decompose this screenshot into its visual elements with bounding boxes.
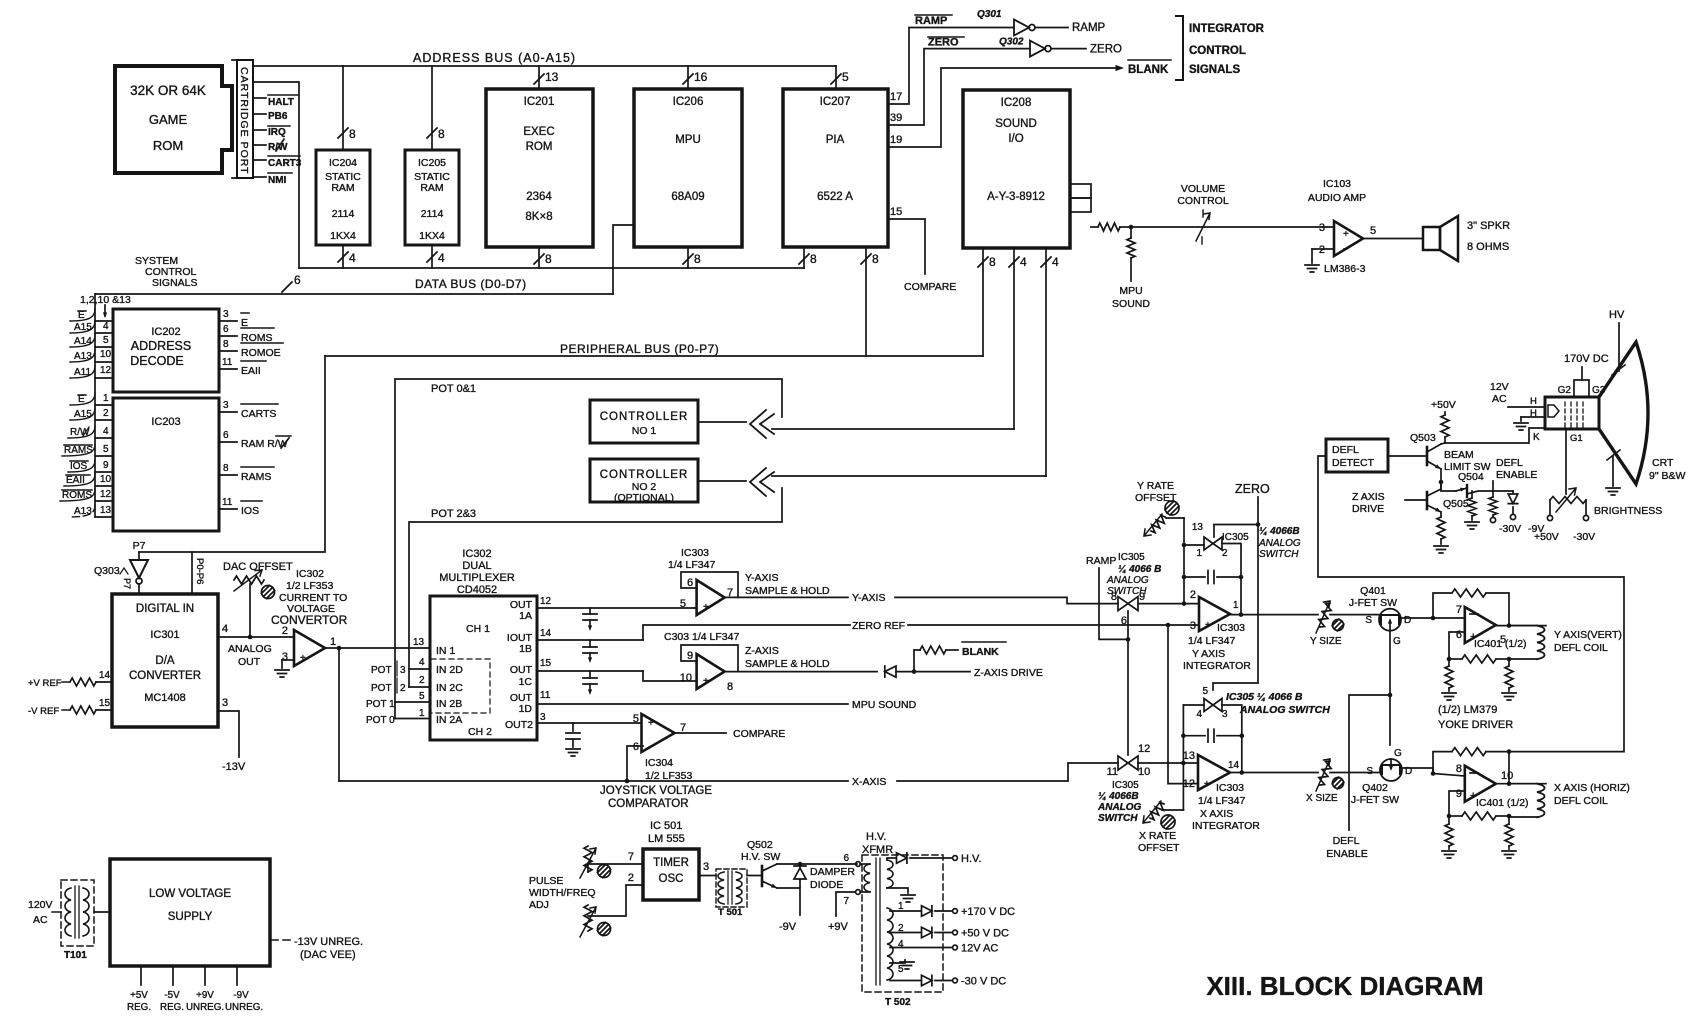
integrator control signals bracket — [1176, 16, 1265, 80]
wire comparator pin6 from X axis — [627, 746, 643, 781]
svg-text:PB6: PB6 — [268, 111, 288, 122]
svg-text:R/W: R/W — [70, 427, 90, 438]
IC203 pin 11 IOS out — [219, 497, 262, 517]
svg-text:5: 5 — [842, 70, 849, 84]
svg-text:2: 2 — [419, 675, 425, 686]
IC302 dual multiplexer CD4052 — [430, 548, 537, 740]
svg-text:Z-AXIS: Z-AXIS — [745, 645, 779, 657]
wire DAC out to multiplexer IN1 — [325, 637, 430, 648]
svg-text:ROM: ROM — [153, 138, 183, 153]
svg-text:13: 13 — [1192, 522, 1204, 533]
svg-text:IC305 ¼ 4066 B: IC305 ¼ 4066 B — [1226, 691, 1303, 703]
wire Y integrator output — [1230, 614, 1318, 616]
svg-text:1A: 1A — [519, 610, 532, 622]
wire pot3 tap — [371, 657, 430, 676]
wire defl detect loop — [1318, 456, 1624, 752]
svg-text:I/O: I/O — [1008, 133, 1023, 145]
svg-text:4: 4 — [1020, 255, 1027, 269]
svg-text:4: 4 — [1052, 255, 1059, 269]
svg-text:-5V: -5V — [164, 990, 180, 1001]
svg-text:DECODE: DECODE — [130, 354, 183, 368]
svg-text:BRIGHTNESS: BRIGHTNESS — [1594, 505, 1662, 517]
svg-text:+: + — [1343, 229, 1349, 240]
svg-text:2114: 2114 — [421, 208, 444, 220]
svg-text:+V REF: +V REF — [28, 678, 62, 689]
transformer T501 — [716, 869, 747, 918]
svg-text:3: 3 — [223, 309, 229, 320]
svg-text:(1/2) LM379: (1/2) LM379 — [1438, 704, 1497, 716]
svg-text:AUDIO AMP: AUDIO AMP — [1308, 192, 1366, 204]
IC203 pin A15 2 — [70, 408, 113, 420]
svg-text:4: 4 — [1196, 709, 1202, 720]
junction Y output — [1239, 612, 1244, 617]
wire -5V reg pin — [160, 966, 184, 1013]
wire X reset leads — [1183, 705, 1241, 773]
diode +50V — [890, 927, 1009, 939]
svg-text:-30V: -30V — [1499, 523, 1521, 535]
svg-text:8: 8 — [438, 127, 445, 141]
wire address bus to IC205 pin with slash 8 — [427, 66, 445, 150]
wire controller 1 to chevron — [698, 421, 746, 423]
svg-text:X-AXIS: X-AXIS — [852, 776, 886, 788]
svg-text:2: 2 — [1319, 244, 1325, 256]
wire X output node — [1496, 783, 1546, 785]
svg-text:IC208: IC208 — [1001, 97, 1032, 109]
IC202 pin 11 EAII out — [219, 357, 266, 377]
T502 LV secondary — [887, 901, 904, 980]
svg-text:Q503: Q503 — [1410, 432, 1436, 444]
wire controller 2 cable to IC208 — [772, 475, 1046, 477]
svg-text:+: + — [1204, 779, 1210, 790]
svg-text:HV: HV — [1609, 309, 1625, 321]
resistor Y lower feedback — [1449, 655, 1509, 663]
svg-text:12: 12 — [100, 489, 112, 500]
wire out1C to Z sample hold — [643, 671, 696, 681]
svg-text:10: 10 — [1501, 770, 1513, 782]
svg-text:IN 2C: IN 2C — [436, 682, 463, 694]
svg-text:14: 14 — [540, 628, 552, 639]
svg-text:G1: G1 — [1570, 433, 1583, 444]
wire IC204 to data bus with slash 4 — [338, 245, 356, 268]
svg-text:OFFSET: OFFSET — [1135, 492, 1177, 504]
svg-text:A13: A13 — [74, 351, 92, 362]
wire PIA pin 19 BLANK — [888, 60, 1171, 147]
svg-text:G3: G3 — [1592, 385, 1606, 396]
svg-text:SWITCH: SWITCH — [1259, 549, 1299, 560]
svg-text:IN 2A: IN 2A — [436, 714, 462, 726]
IC203 pin RAMS 5 — [62, 444, 113, 456]
svg-text:+: + — [703, 676, 709, 687]
transistor Q302 inverter — [999, 37, 1122, 57]
wire +9V to T502 pin7 — [828, 892, 855, 933]
svg-text:14: 14 — [1228, 760, 1240, 771]
svg-text:IC302: IC302 — [296, 568, 324, 580]
svg-text:A15: A15 — [74, 322, 92, 333]
svg-text:DUAL: DUAL — [462, 560, 491, 572]
svg-text:SOUND: SOUND — [1112, 298, 1150, 310]
svg-text:13: 13 — [1183, 750, 1195, 762]
svg-text:IC303: IC303 — [1216, 782, 1244, 794]
svg-text:POT: POT — [371, 665, 392, 676]
svg-text:-13V: -13V — [222, 761, 246, 773]
resistor Y pin6 to ground — [1442, 659, 1456, 700]
svg-text:Q401: Q401 — [1360, 585, 1386, 597]
wire Y size to Q401 — [1330, 614, 1379, 616]
junction X output — [1240, 770, 1245, 775]
svg-text:DAMPER: DAMPER — [810, 866, 855, 878]
svg-text:ROMS: ROMS — [241, 332, 273, 344]
CRT funnel ground — [1606, 450, 1620, 495]
svg-text:JOYSTICK VOLTAGE: JOYSTICK VOLTAGE — [600, 785, 712, 797]
svg-text:IC301: IC301 — [150, 629, 179, 641]
op-amp IC303 X axis integrator — [1183, 750, 1261, 832]
svg-text:Q302: Q302 — [999, 37, 1024, 48]
IC203 pin 3 CARTS out — [219, 400, 278, 420]
wire IC401y pin6 — [1449, 632, 1465, 659]
svg-text:UNREG.: UNREG. — [225, 1002, 263, 1013]
svg-text:E: E — [78, 310, 85, 321]
svg-text:3: 3 — [1222, 709, 1228, 720]
svg-text:-13V UNREG.: -13V UNREG. — [294, 936, 363, 948]
cable chevron controller 2 — [750, 468, 774, 496]
svg-text:-30 V DC: -30 V DC — [961, 976, 1006, 988]
svg-text:MPU SOUND: MPU SOUND — [852, 699, 917, 711]
svg-text:+: + — [703, 602, 709, 613]
svg-text:RAMP: RAMP — [915, 15, 947, 27]
svg-text:CARTRIDGE PORT: CARTRIDGE PORT — [238, 67, 250, 175]
svg-text:SWITCH: SWITCH — [1098, 813, 1138, 824]
svg-text:TIMER: TIMER — [653, 857, 689, 869]
svg-text:1: 1 — [330, 636, 336, 648]
mux pin 15 out1C — [537, 658, 643, 671]
svg-text:8: 8 — [727, 681, 733, 693]
svg-text:11: 11 — [222, 357, 233, 368]
junction IC401y pin7 node — [1431, 616, 1436, 621]
svg-text:1: 1 — [419, 708, 425, 719]
svg-text:13: 13 — [413, 637, 425, 648]
junction X fb node — [1507, 749, 1512, 754]
svg-text:WIDTH/FREQ: WIDTH/FREQ — [529, 887, 596, 899]
svg-text:S: S — [1366, 766, 1373, 777]
svg-text:UNREG.: UNREG. — [186, 1002, 224, 1013]
svg-text:Y AXIS: Y AXIS — [1192, 648, 1225, 660]
trimmer X rate offset — [1138, 801, 1183, 854]
mux pin 3 out2 — [537, 712, 641, 723]
svg-text:SUPPLY: SUPPLY — [168, 911, 213, 923]
wire P0-P6 into DAC — [192, 552, 205, 594]
wire DAC analog out pin 4 — [218, 623, 294, 668]
svg-text:8 OHMS: 8 OHMS — [1467, 241, 1509, 253]
wire Z axis drive — [724, 671, 877, 673]
DEFL DETECT box — [1326, 439, 1388, 472]
wire address bus to IC207 pin with slash 5 — [831, 66, 849, 89]
svg-text:ANALOG: ANALOG — [1097, 802, 1142, 813]
svg-text:POT 0&1: POT 0&1 — [431, 383, 476, 395]
wire IC208 to peripheral bus with slash 8 — [978, 248, 996, 356]
analog switch IC305 X sample — [1097, 743, 1150, 824]
svg-text:PIA: PIA — [826, 134, 845, 146]
inductor Y deflection coil — [1509, 626, 1622, 660]
op-amp IC303 Y axis sample and hold — [668, 547, 830, 615]
svg-text:CARTS: CARTS — [241, 408, 276, 420]
svg-text:RAM: RAM — [331, 182, 354, 194]
svg-text:ADJ: ADJ — [529, 899, 549, 911]
junction X input node — [1181, 761, 1186, 766]
svg-text:8: 8 — [545, 252, 552, 266]
CRT funnel — [1599, 342, 1648, 484]
T502 HV secondary — [887, 858, 915, 902]
svg-text:8: 8 — [872, 252, 879, 266]
svg-text:13: 13 — [545, 70, 559, 84]
svg-text:REG.: REG. — [127, 1002, 151, 1013]
wire Q503 collector to cathode — [1445, 428, 1545, 443]
capacitor out1A — [583, 608, 597, 631]
transistor Q502 HV switch — [741, 839, 780, 888]
svg-text:SOUND: SOUND — [995, 118, 1037, 130]
junction zero ref Y — [1166, 623, 1171, 628]
svg-text:CONTROLLER: CONTROLLER — [600, 469, 689, 481]
wire IC401y input — [1433, 617, 1465, 619]
wire -9V unreg pin — [225, 966, 263, 1013]
wire pot0 tap — [366, 708, 430, 726]
wire IC301 pin 3 to -13V — [218, 697, 246, 773]
wire NMI stub — [253, 173, 292, 186]
IC203 pin R/W 4 — [68, 426, 113, 438]
wire 12VAC out — [890, 943, 998, 955]
IC207 PIA 6522A — [783, 89, 888, 247]
wire address bus to IC201 pin with slash 13 — [534, 66, 559, 89]
potentiometer brightness — [1534, 488, 1662, 543]
cable chevron controller 1 — [750, 410, 774, 438]
svg-text:ADDRESS BUS (A0-A15): ADDRESS BUS (A0-A15) — [413, 51, 576, 65]
svg-text:6: 6 — [687, 577, 693, 589]
svg-text:DEFL COIL: DEFL COIL — [1554, 642, 1608, 654]
wire Q503 emitter junction — [1440, 469, 1442, 482]
wire X integrator output — [1230, 772, 1318, 774]
svg-text:+: + — [648, 718, 654, 729]
wire IC207 to data bus with slash 8 — [799, 247, 817, 268]
svg-text:Z AXIS: Z AXIS — [1352, 491, 1385, 503]
wire R/W stub — [253, 139, 288, 153]
svg-text:IC304: IC304 — [645, 757, 673, 769]
svg-text:IC401 (1/2): IC401 (1/2) — [1474, 638, 1527, 650]
svg-text:J-FET SW: J-FET SW — [1349, 597, 1397, 609]
diode to -9V — [1508, 491, 1544, 535]
svg-text:ANALOG: ANALOG — [1258, 538, 1301, 549]
svg-text:J-FET SW: J-FET SW — [1351, 794, 1399, 806]
game ROM cartridge — [115, 66, 232, 173]
wire trimmer1 to pin7 — [588, 851, 643, 864]
svg-text:4: 4 — [419, 657, 425, 668]
svg-text:E: E — [241, 317, 248, 329]
svg-text:8: 8 — [349, 127, 356, 141]
wire heater H2 — [1514, 408, 1545, 430]
resistor MPU sound mix — [1112, 227, 1150, 310]
svg-text:6: 6 — [1456, 629, 1462, 641]
svg-text:3: 3 — [1190, 620, 1196, 632]
svg-text:+170 V DC: +170 V DC — [961, 906, 1015, 918]
IC203 pin E 1 — [70, 393, 113, 405]
svg-text:5: 5 — [1202, 686, 1208, 697]
svg-text:2: 2 — [282, 625, 288, 637]
svg-text:RAMS: RAMS — [241, 471, 271, 483]
svg-text:19: 19 — [890, 134, 902, 146]
svg-text:OSC: OSC — [659, 873, 684, 885]
op-amp IC103 audio amp LM386 — [1305, 178, 1376, 275]
IC203 pin ROMS 12 — [60, 489, 113, 501]
wire X size to Q402 — [1330, 772, 1380, 774]
junction audio node — [1129, 225, 1134, 230]
svg-text:POT 2&3: POT 2&3 — [431, 508, 476, 520]
IC203 pin 8 RAMS out — [219, 463, 274, 483]
op-amp IC303 Y axis integrator — [1183, 589, 1251, 672]
junction IC401x pin8 node — [1431, 771, 1436, 776]
svg-text:ANALOG: ANALOG — [228, 643, 272, 655]
svg-text:2364: 2364 — [526, 191, 552, 203]
wire address bus to IC206 pin with slash 16 — [683, 66, 708, 89]
IC202 pin A13 — [70, 349, 113, 362]
label pulse width adj — [529, 875, 596, 911]
svg-text:IC201: IC201 — [524, 96, 555, 108]
svg-text:12: 12 — [540, 596, 552, 607]
wire T101 to supply — [94, 911, 110, 913]
junction X feedback tap — [337, 646, 342, 651]
svg-text:RAMS: RAMS — [64, 445, 93, 456]
svg-text:8: 8 — [810, 252, 817, 266]
IC203 pin EAII 10 — [64, 474, 113, 486]
svg-text:IC305: IC305 — [1222, 532, 1249, 543]
svg-text:1KX4: 1KX4 — [419, 230, 445, 242]
svg-text:2: 2 — [400, 683, 406, 694]
wire X-axis — [339, 763, 1118, 788]
resistor Q504 to ground — [1465, 491, 1479, 529]
wire pot1 tap — [366, 691, 430, 710]
svg-text:9: 9 — [1139, 591, 1145, 603]
wire address bus A0-A15 — [253, 51, 836, 66]
svg-text:4: 4 — [103, 321, 109, 332]
wire zero ref — [643, 620, 1168, 640]
wire defl enable — [1326, 695, 1390, 860]
wire IC206 to data bus with slash 8 — [683, 247, 701, 268]
svg-text:8: 8 — [989, 255, 996, 269]
svg-text:E: E — [78, 394, 85, 405]
svg-text:H.V.: H.V. — [866, 831, 886, 843]
wire Y output node — [1496, 625, 1546, 627]
svg-text:IC103: IC103 — [1323, 178, 1351, 190]
svg-text:3" SPKR: 3" SPKR — [1467, 220, 1510, 232]
svg-text:6: 6 — [294, 273, 301, 287]
wire IC208 pot input A with slash 4 — [1009, 248, 1027, 429]
wire RAMP control — [1099, 568, 1128, 639]
op-amp IC401 half X — [1456, 763, 1529, 809]
wire zero ref to pin3 — [1168, 624, 1199, 626]
junction Y lower fb — [1447, 657, 1512, 662]
svg-text:AC: AC — [33, 914, 48, 926]
resistor X pin9 to ground — [1442, 816, 1456, 858]
svg-text:-V REF: -V REF — [28, 706, 59, 717]
svg-text:15: 15 — [540, 658, 552, 669]
analog switch IC305 Y reset — [1192, 522, 1249, 559]
svg-text:LM386-3: LM386-3 — [1324, 263, 1366, 275]
svg-text:5: 5 — [633, 713, 639, 725]
resistor X out to ground — [1502, 816, 1516, 858]
IC205 static RAM — [405, 150, 459, 245]
svg-text:Y SIZE: Y SIZE — [1310, 636, 1342, 647]
svg-text:RAM: RAM — [420, 182, 443, 194]
wire PB6 stub — [253, 111, 288, 122]
svg-text:−: − — [1343, 244, 1349, 255]
trimmer Y rate offset — [1135, 480, 1184, 536]
IC203 pin IOS 9 — [68, 460, 113, 472]
svg-text:NO 1: NO 1 — [632, 425, 657, 437]
svg-text:DAC OFFSET: DAC OFFSET — [223, 561, 293, 573]
svg-text:MPU: MPU — [675, 134, 701, 146]
label 1,2,10,13 with arrow — [80, 294, 131, 318]
svg-text:COMPARE: COMPARE — [733, 728, 785, 740]
svg-text:Y-AXIS: Y-AXIS — [852, 592, 885, 604]
wire Q502 collector — [777, 863, 857, 865]
svg-text:ZERO: ZERO — [1235, 482, 1270, 496]
inductor X deflection coil — [1509, 782, 1630, 817]
svg-text:2: 2 — [628, 872, 634, 884]
svg-text:170V DC: 170V DC — [1564, 353, 1609, 365]
mux pin 11 out1D MPU sound — [537, 690, 917, 711]
svg-text:IC202: IC202 — [151, 326, 180, 338]
wire IC401x input — [1433, 774, 1465, 777]
svg-text:MC1408: MC1408 — [144, 692, 186, 704]
svg-text:EAII: EAII — [66, 475, 85, 486]
svg-text:6: 6 — [633, 741, 639, 753]
svg-text:4: 4 — [349, 251, 356, 265]
svg-text:3: 3 — [222, 697, 228, 709]
svg-text:IRQ: IRQ — [268, 127, 286, 138]
svg-text:10: 10 — [1138, 766, 1150, 778]
svg-text:A14: A14 — [74, 336, 92, 347]
capacitor out2 — [566, 723, 580, 756]
svg-text:ROMOE: ROMOE — [241, 347, 281, 359]
svg-text:MULTIPLEXER: MULTIPLEXER — [439, 572, 515, 584]
IC202 pin 3 E out — [219, 309, 249, 329]
resistor -V REF pin 15 — [28, 698, 112, 717]
svg-text:HALT: HALT — [268, 97, 294, 108]
svg-text:IN 1: IN 1 — [436, 645, 455, 657]
svg-text:IC302: IC302 — [462, 548, 491, 560]
junction beam node — [1439, 480, 1444, 485]
svg-text:MPU: MPU — [1119, 285, 1142, 297]
svg-text:DIGITAL IN: DIGITAL IN — [136, 603, 194, 615]
svg-text:POT: POT — [371, 683, 392, 694]
junction Y out node — [1507, 623, 1512, 628]
junction Z blank node — [912, 669, 917, 674]
svg-text:DIODE: DIODE — [810, 879, 843, 891]
label 170V DC — [1564, 353, 1609, 365]
svg-text:ANALOG SWITCH: ANALOG SWITCH — [1239, 704, 1330, 716]
IC203 pin A13 13 — [70, 505, 113, 517]
svg-text:BLANK: BLANK — [962, 646, 999, 658]
svg-text:11: 11 — [540, 690, 551, 701]
IC206 MPU 68A09 — [634, 89, 742, 247]
junction ZERO Y tap — [1256, 522, 1261, 527]
wire data bus upper — [253, 82, 804, 268]
svg-text:11: 11 — [222, 497, 233, 508]
svg-text:CONTROL: CONTROL — [1177, 195, 1228, 207]
IC204 static RAM — [316, 150, 370, 245]
wire pin3 to T501 — [699, 861, 716, 876]
svg-text:Q505: Q505 — [1443, 498, 1469, 510]
resistor +V REF pin 14 — [28, 670, 112, 689]
transformer T101 — [52, 880, 94, 961]
svg-text:Y-AXIS: Y-AXIS — [745, 572, 778, 584]
